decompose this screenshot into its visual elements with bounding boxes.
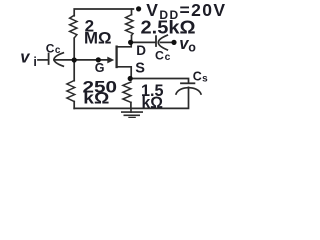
svg-text:o: o — [188, 40, 196, 54]
svg-text:kΩ: kΩ — [83, 89, 109, 108]
svg-text:MΩ: MΩ — [84, 29, 112, 48]
svg-text:i: i — [33, 55, 36, 69]
wire input lead from vi — [38, 59, 48, 61]
capacitor CC2 output curved plate — [158, 35, 167, 50]
resistor RG2 250 kohm — [67, 81, 75, 102]
svg-text:D: D — [136, 43, 146, 58]
transistor Q1 source lead — [117, 67, 132, 79]
svg-text:S: S — [135, 61, 145, 77]
wire drain node to output capacitor — [131, 41, 155, 43]
node source dot — [128, 76, 133, 81]
capacitor CS flat plate — [181, 82, 194, 84]
wire top supply rail — [74, 9, 133, 16]
node drain dot — [128, 40, 133, 45]
node gate bias junction dot — [72, 57, 77, 62]
wire 250k bottom lead — [73, 102, 75, 109]
wire gate bias rail — [73, 38, 75, 80]
wire signal to gate — [54, 59, 110, 61]
capacitor CS curved plate — [176, 88, 201, 94]
wire 2.5k bottom lead to drain node — [131, 36, 133, 43]
wire bottom ground rail — [74, 87, 188, 108]
resistor RD 2.5 kohm — [126, 15, 133, 36]
ground symbol — [122, 108, 142, 117]
svg-text:v: v — [20, 48, 30, 66]
svg-text:G: G — [95, 61, 105, 75]
capacitor CC1 input plate — [48, 54, 50, 64]
capacitor CC2 output plate — [155, 36, 157, 46]
node vo dot — [171, 40, 176, 45]
node VDD dot — [136, 6, 141, 11]
transistor Q1 channel bar — [115, 47, 117, 67]
svg-text:Cc: Cc — [46, 41, 61, 56]
wire 1.5k bottom lead — [130, 102, 132, 108]
svg-text:Cc: Cc — [155, 49, 171, 64]
svg-text:Cs: Cs — [193, 69, 208, 84]
wire 2.5k top lead — [131, 9, 133, 15]
transistor Q1 gate arrowhead — [107, 57, 114, 64]
capacitor CC1 input curved plate — [54, 53, 63, 66]
svg-text:kΩ: kΩ — [142, 94, 164, 112]
resistor RS 1.5 kohm — [123, 82, 131, 102]
wire source node to CS — [130, 79, 188, 83]
resistor RG1 2 Mohm — [70, 15, 77, 38]
node gate dot — [96, 57, 101, 62]
wire output to vo — [161, 41, 175, 43]
transistor Q1 drain lead — [117, 42, 132, 46]
